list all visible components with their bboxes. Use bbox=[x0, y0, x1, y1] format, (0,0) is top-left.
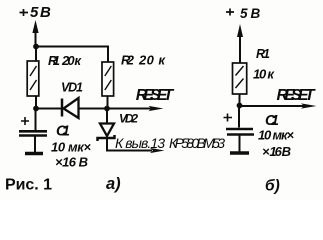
svg-text:а): а) bbox=[106, 175, 121, 193]
wire node D down to C1 (b) bbox=[238, 106, 240, 128]
wire C1 to ground (b) bbox=[239, 136, 241, 152]
wire node A down to R1 bbox=[35, 47, 37, 62]
svg-text:R2: R2 bbox=[121, 53, 135, 68]
RESET output arrow (circuit a) bbox=[107, 108, 152, 110]
svg-text:КР580ВМ53: КР580ВМ53 bbox=[169, 135, 225, 151]
svg-text:RESET: RESET bbox=[136, 87, 175, 104]
wire C1 to ground bbox=[34, 137, 36, 153]
svg-text:В: В bbox=[251, 6, 261, 21]
resistor R1 (20k, circuit a) bbox=[27, 61, 39, 96]
wire R2 bottom to node C bbox=[107, 96, 109, 109]
node B junction dot bbox=[33, 106, 39, 112]
svg-text:10 к: 10 к bbox=[253, 67, 275, 82]
svg-text:В: В bbox=[40, 4, 51, 21]
svg-text:20 к: 20 к bbox=[138, 53, 166, 68]
wire top horizontal to R2 bbox=[36, 47, 108, 63]
svg-text:VD2: VD2 bbox=[119, 112, 138, 126]
capacitor C1 (circuit b) bbox=[226, 128, 253, 131]
node D junction dot bbox=[237, 103, 243, 109]
RESET output arrow (circuit b) bbox=[240, 105, 306, 107]
zener diode VD2 (pointing down) bbox=[100, 124, 114, 137]
svg-text:× 16 В: × 16 В bbox=[262, 144, 291, 159]
svg-text:VD1: VD1 bbox=[61, 81, 83, 95]
net +5V label (circuit a) bbox=[20, 9, 29, 16]
ground (circuit a) bbox=[25, 152, 43, 155]
wire node B down to C1 bbox=[35, 109, 37, 131]
capacitor C1 (circuit a) bbox=[19, 130, 47, 133]
svg-text:5: 5 bbox=[240, 6, 248, 21]
svg-text:×16 В: ×16 В bbox=[55, 155, 88, 170]
svg-text:5: 5 bbox=[30, 4, 39, 21]
capacitor C1 polarity plus (b) bbox=[224, 114, 233, 122]
wire node B to VD1 cathode bbox=[38, 108, 62, 110]
svg-text:С1: С1 bbox=[56, 124, 70, 140]
ground (circuit b) bbox=[230, 151, 249, 154]
resistor R2 (20k, circuit a) bbox=[102, 62, 114, 96]
power arrow up (circuit b) bbox=[239, 28, 241, 63]
wire VD1 anode to node C bbox=[79, 108, 107, 110]
svg-text:10 мк×: 10 мк× bbox=[51, 140, 91, 155]
svg-text:б): б) bbox=[265, 178, 280, 195]
svg-text:Рис. 1: Рис. 1 bbox=[5, 177, 52, 194]
net +5V label (circuit b) bbox=[226, 9, 234, 16]
svg-text:RESET: RESET bbox=[277, 87, 316, 104]
wire R1 to node D bbox=[239, 94, 241, 106]
svg-text:R1: R1 bbox=[256, 47, 270, 61]
diode VD1 (pointing left) bbox=[61, 99, 64, 117]
svg-text:К выв.13: К выв.13 bbox=[115, 135, 165, 151]
svg-text:20 к: 20 к bbox=[61, 53, 82, 68]
resistor R1 (10k, circuit b) bbox=[233, 63, 247, 94]
capacitor C1 polarity plus (a) bbox=[21, 117, 29, 125]
wire node C down to VD2 bbox=[106, 109, 108, 124]
node A junction dot bbox=[33, 44, 39, 50]
power arrow up (circuit a) bbox=[35, 25, 37, 47]
node C junction dot bbox=[104, 106, 110, 112]
svg-text:R1: R1 bbox=[48, 53, 60, 68]
wire R1 bottom to node B bbox=[35, 96, 37, 109]
wire VD2 to pin-13 arrow bbox=[107, 138, 152, 151]
svg-text:10 мк×: 10 мк× bbox=[258, 128, 294, 143]
